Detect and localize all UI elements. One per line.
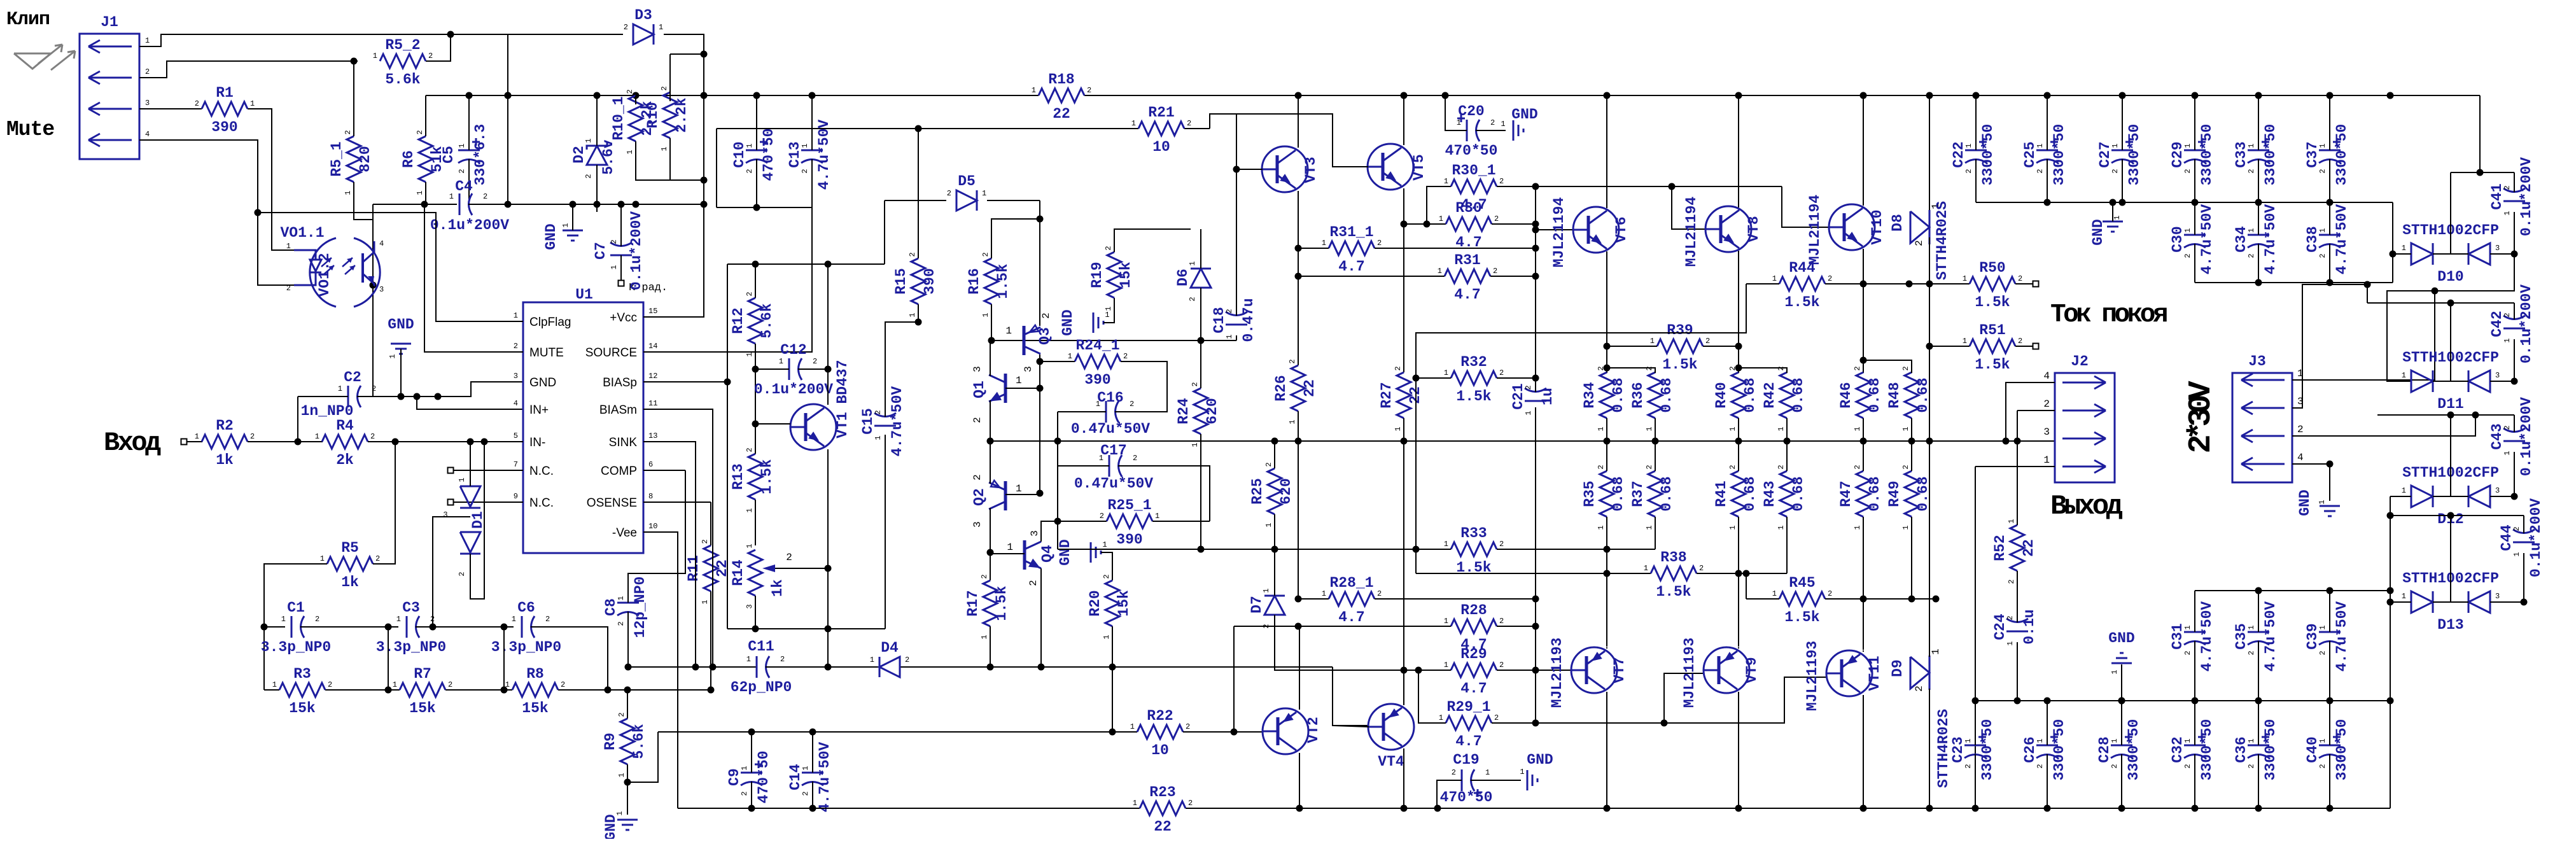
wire y863 line [1058, 549, 1451, 550]
wire J2 pin1 [1975, 466, 2055, 467]
svg-text:1: 1 [610, 265, 619, 269]
pad R51 [2033, 344, 2039, 349]
junction bus x2601 [1652, 438, 1659, 445]
svg-text:4.7u*50V: 4.7u*50V [2334, 204, 2350, 275]
wire VT9 collector [1738, 692, 1739, 808]
resistor R42 [1761, 366, 1807, 431]
diode D13 [2402, 570, 2500, 633]
svg-text:2: 2 [981, 252, 990, 256]
svg-text:J1: J1 [101, 14, 118, 31]
wire D12 D13 col [2390, 496, 2391, 808]
diode D10 [2402, 222, 2500, 285]
svg-text:R51: R51 [1979, 322, 2005, 339]
svg-text:1: 1 [801, 766, 810, 770]
capacitor C14 [787, 742, 833, 813]
capacitor C6 [491, 600, 561, 656]
resistor R1 [195, 85, 255, 136]
wire C35 top [2258, 591, 2259, 632]
wire H4 end up [1210, 114, 1236, 129]
svg-text:2: 2 [745, 447, 754, 452]
svg-text:1: 1 [2036, 738, 2045, 743]
resistor R25 [1249, 462, 1294, 527]
wire top to D3 [508, 34, 623, 35]
svg-text:2: 2 [701, 539, 710, 544]
junction J3 pin2 [2472, 412, 2479, 419]
wire D1 bottom loop [470, 442, 484, 599]
wire R10_1 top [635, 95, 636, 104]
resistor R31_1 [1322, 224, 1382, 275]
wire VT8 collector [1738, 95, 1739, 207]
svg-text:-Vee: -Vee [612, 526, 637, 540]
wire R25 bottom [1274, 514, 1275, 549]
wire R33 p1 lead [1416, 549, 1451, 550]
svg-text:1: 1 [1155, 512, 1159, 521]
svg-text:2: 2 [1377, 239, 1382, 248]
wire J3 pin1 [2292, 291, 2435, 380]
wire gnd R20 [1101, 552, 1112, 580]
capacitor C8 [603, 577, 648, 638]
wire VT1 emitter [827, 449, 829, 667]
wire C4 row right [472, 204, 704, 205]
svg-text:4: 4 [145, 130, 150, 139]
wire Q4 emitter [1040, 568, 1042, 667]
pad input [181, 439, 187, 445]
ground near J3 [2297, 489, 2340, 516]
svg-text:1: 1 [982, 189, 986, 198]
svg-text:GND: GND [1511, 106, 1537, 123]
svg-text:2: 2 [660, 86, 669, 90]
junction C4 row x667 [421, 201, 428, 208]
svg-text:470*50: 470*50 [755, 751, 772, 804]
svg-text:1: 1 [1650, 337, 1655, 346]
wire C17 left [1058, 465, 1109, 467]
junction R31_1 p2 [1532, 245, 1539, 252]
svg-text:0.1u*200V: 0.1u*200V [430, 217, 509, 234]
svg-text:C5: C5 [440, 146, 457, 164]
svg-text:1: 1 [981, 312, 990, 317]
wire R24_1 p1 lead [1040, 361, 1075, 362]
wire D9 down [1929, 689, 1930, 808]
junction gnd C4 [570, 201, 577, 208]
wire VT10 emitter [1863, 249, 1864, 373]
wire pin8 OSENSE [643, 502, 711, 503]
junction bus D8 [1926, 438, 1933, 445]
svg-text:R5_1: R5_1 [328, 141, 345, 176]
svg-text:2: 2 [1914, 685, 1925, 692]
junction SINK riser [692, 664, 699, 671]
svg-text:R9: R9 [602, 733, 619, 750]
wire C row [264, 626, 285, 628]
svg-text:2: 2 [1494, 713, 1499, 722]
svg-text:R21: R21 [1148, 104, 1174, 121]
wire R49 bottom [1911, 517, 1912, 599]
wire C22 top [1975, 95, 1977, 150]
svg-text:C4: C4 [455, 178, 473, 195]
junction R30 p1 [1424, 221, 1431, 228]
capacitor C30 [2169, 204, 2215, 275]
junction rail bottom x2206 [1401, 805, 1408, 812]
svg-text:1: 1 [1131, 119, 1136, 128]
wire VT8 emitter [1738, 251, 1739, 373]
wire R45 riser [1746, 573, 1747, 599]
wire C41 top [2514, 172, 2515, 192]
junction rail bottom x3104 [1972, 805, 1979, 812]
wire VT7 emitter [1606, 647, 1607, 649]
svg-text:4.7u*50V: 4.7u*50V [2199, 204, 2215, 275]
wire C2 right [368, 396, 438, 397]
svg-text:2: 2 [2006, 615, 2015, 620]
wire D12 p1 [2390, 496, 2411, 497]
transistor VT11 [1804, 641, 1883, 711]
diode D6 [1175, 261, 1211, 301]
svg-text:10: 10 [648, 522, 657, 531]
wire VT6 emitter [1606, 251, 1607, 373]
svg-text:1: 1 [315, 432, 319, 441]
junction y901 x2525 [1604, 570, 1611, 577]
svg-text:1: 1 [1964, 738, 1973, 743]
wire R45 p1 lead [1746, 598, 1779, 600]
svg-text:1: 1 [1853, 525, 1862, 530]
capacitor C12 [754, 342, 833, 398]
svg-text:BIASp: BIASp [603, 376, 637, 389]
resistor R35 [1581, 465, 1627, 530]
svg-text:2: 2 [2503, 185, 2512, 190]
wire D3 cathode [647, 34, 704, 317]
junction Q3 emitter node [1037, 216, 1044, 223]
label Klip [6, 9, 50, 31]
wire R33 p2 [1497, 549, 1655, 550]
capacitor C44 [2498, 498, 2544, 577]
svg-text:1: 1 [458, 143, 466, 148]
svg-text:1.5k: 1.5k [1784, 609, 1819, 626]
pins Q1 [972, 366, 1022, 423]
wire VT10 collector [1863, 95, 1864, 206]
svg-text:1: 1 [745, 544, 754, 548]
svg-text:2: 2 [1828, 274, 1832, 283]
svg-text:1: 1 [1133, 799, 1137, 808]
junction rail bottom x3661 [2327, 805, 2334, 812]
wire D10 p3 [2490, 253, 2514, 255]
junction R44 x3000 [1906, 281, 1913, 288]
svg-text:0.68: 0.68 [1658, 377, 1675, 412]
junction x3032 y544 [1926, 343, 1933, 350]
resistor R9 [602, 712, 647, 777]
svg-text:1.5k: 1.5k [1456, 388, 1491, 405]
capacitor C31 [2169, 601, 2215, 672]
wire bank top x3004 to bus [1911, 418, 1912, 441]
wire VT4 collector [1403, 670, 1404, 705]
junction bus x2732 [1735, 438, 1742, 445]
svg-text:IN+: IN+ [529, 403, 549, 417]
wire R30 p1 lead [1427, 223, 1446, 225]
svg-text:R43: R43 [1761, 481, 1778, 507]
svg-text:3300*50: 3300*50 [2125, 719, 2142, 781]
wire bus left [990, 440, 2055, 442]
wire J2 pin1 riser [1975, 467, 1976, 808]
wire R31 p2 [1490, 276, 1536, 277]
svg-text:2: 2 [1597, 465, 1606, 469]
capacitor C41 [2489, 157, 2535, 236]
svg-text:C12: C12 [780, 342, 806, 358]
resistor R8 [505, 666, 565, 717]
wire input [187, 441, 202, 442]
wire C32 bottom [2194, 765, 2195, 808]
svg-text:2: 2 [624, 23, 628, 32]
wire bank top x2601 to bus [1655, 418, 1656, 441]
svg-text:1k: 1k [341, 574, 359, 591]
svg-text:3: 3 [2043, 426, 2050, 438]
junction y444 x3661 [2327, 279, 2334, 286]
wire R51 p1 wire [1929, 346, 1970, 347]
resistor R29 [1444, 646, 1504, 697]
wire C30 top [2194, 202, 2195, 235]
svg-text:1: 1 [2007, 519, 2016, 523]
svg-text:15: 15 [648, 307, 657, 316]
svg-text:1: 1 [2183, 625, 2192, 629]
svg-text:D2: D2 [571, 146, 587, 164]
wire R5_2 p2 riser [426, 34, 451, 61]
svg-text:R50: R50 [1979, 260, 2005, 276]
svg-text:1: 1 [1288, 419, 1297, 424]
svg-text:1: 1 [1105, 311, 1109, 319]
svg-text:R5_2: R5_2 [385, 37, 420, 53]
junction rail bottom x3032 [1926, 805, 1933, 812]
svg-text:1: 1 [2110, 738, 2119, 743]
svg-text:7: 7 [514, 460, 518, 469]
junction rail x999 [633, 92, 640, 99]
svg-text:1: 1 [660, 146, 669, 151]
svg-text:1: 1 [1930, 649, 1942, 655]
svg-text:3: 3 [972, 521, 983, 528]
capacitor C36 [2233, 719, 2279, 781]
svg-text:620: 620 [1204, 398, 1221, 424]
wire C33 bottom [2258, 170, 2259, 202]
wire C43 bottom [2514, 452, 2515, 496]
wire R25_1 p1 lead [1152, 521, 1210, 522]
ground below R9 [603, 811, 638, 840]
wire J3p3 to y476 [2367, 284, 2368, 303]
wire x3760 riser [2392, 202, 2393, 283]
svg-text:0.47u*50V: 0.47u*50V [1071, 421, 1150, 437]
svg-text:2: 2 [972, 417, 983, 423]
resistor R14 [730, 544, 762, 608]
wire R9 bottom [627, 764, 628, 815]
transistor VT6 [1551, 197, 1630, 268]
svg-text:GND: GND [2108, 630, 2134, 647]
wire +Vcc rail [426, 95, 1039, 96]
junction R9 top [624, 687, 631, 694]
svg-text:2: 2 [458, 169, 466, 173]
junction midbus x3170 [2014, 698, 2021, 705]
wire C12 right [809, 368, 828, 370]
junction C4 row x798 [505, 201, 512, 208]
svg-text:1: 1 [2247, 625, 2256, 629]
svg-text:2: 2 [1452, 768, 1456, 777]
capacitor C11 [731, 638, 792, 696]
junction R30 p2 [1532, 221, 1539, 228]
svg-text:R28: R28 [1460, 602, 1487, 619]
svg-text:1: 1 [2402, 486, 2406, 495]
resistor R6 [400, 130, 445, 195]
junction C4 row x938 [594, 201, 601, 208]
svg-text:COMP: COMP [601, 465, 637, 478]
svg-text:R25_1: R25_1 [1107, 497, 1151, 514]
wire R29 p2 [1497, 670, 1536, 671]
junction midbus x3217 [2044, 698, 2051, 705]
wire Q1 base lead [1005, 388, 1040, 389]
wire D2 top [596, 95, 598, 146]
svg-text:2: 2 [2318, 169, 2327, 173]
svg-text:1: 1 [2318, 228, 2327, 232]
junction Q2 base [1037, 490, 1044, 497]
junction bus x2928 [1860, 438, 1867, 445]
wire R28 p1 [1234, 626, 1451, 627]
svg-text:2: 2 [947, 189, 951, 198]
svg-text:1: 1 [281, 615, 286, 624]
svg-text:4: 4 [2297, 452, 2304, 463]
junction gnd bank [2110, 199, 2117, 206]
svg-text:2: 2 [584, 174, 593, 178]
svg-text:1: 1 [740, 766, 749, 770]
wire C25 bottom [2047, 170, 2048, 202]
junction bus J2p4 [2003, 438, 2010, 445]
junction R48 top [1860, 357, 1867, 364]
svg-text:1: 1 [1264, 523, 1273, 527]
resistor R48 [1886, 366, 1931, 431]
capacitor C21 [1510, 381, 1556, 416]
svg-text:2: 2 [1191, 382, 1200, 386]
capacitor C40 [2304, 719, 2350, 781]
svg-text:2: 2 [145, 67, 150, 76]
resistor R20 [1087, 574, 1132, 639]
wire R30 p2 [1492, 223, 1536, 225]
junction R3 R7 [385, 687, 392, 694]
resistor R43 [1761, 465, 1807, 530]
svg-text:2: 2 [1828, 589, 1832, 598]
wire J1 pin4 to opto [139, 140, 294, 285]
capacitor C9 [726, 751, 772, 804]
wire R6 bottom [425, 182, 426, 204]
svg-text:2: 2 [2036, 764, 2045, 768]
junction R27 bus [1401, 438, 1408, 445]
resistor R30 [1439, 200, 1499, 251]
wire pin10 -Vee [643, 532, 678, 808]
junction VT1 base [752, 421, 759, 428]
junction Q4 e [1038, 664, 1045, 671]
wire R12 top [755, 264, 756, 298]
junction J3 pin1 [2432, 288, 2439, 295]
junction rail x1276 [809, 92, 816, 99]
svg-text:3.3p_NP0: 3.3p_NP0 [376, 639, 446, 656]
svg-text:1.5k: 1.5k [1656, 584, 1691, 600]
svg-text:C16: C16 [1097, 389, 1123, 406]
pins J2 [2043, 370, 2050, 466]
wire C row 2 [309, 626, 398, 628]
svg-text:1: 1 [1597, 426, 1606, 431]
svg-text:D3: D3 [634, 7, 652, 24]
svg-text:1: 1 [416, 190, 424, 195]
wire y1048 c [900, 666, 1333, 668]
wire C2 left riser [297, 396, 298, 442]
svg-text:1: 1 [1394, 426, 1403, 431]
wire bottom rail right [1186, 808, 2390, 809]
svg-text:1: 1 [1444, 617, 1448, 626]
junction C7 top [618, 201, 625, 208]
svg-text:2: 2 [2018, 274, 2022, 283]
junction x3756 y1101 [2387, 698, 2394, 705]
svg-text:Выход: Выход [2050, 491, 2123, 523]
wire VT5 collector [1403, 95, 1404, 145]
svg-text:C2: C2 [344, 369, 361, 386]
svg-text:62p_NP0: 62p_NP0 [731, 679, 792, 696]
wire x2413 col [1535, 186, 1536, 386]
svg-text:R10: R10 [645, 102, 661, 128]
svg-text:STTH4R02S: STTH4R02S [1934, 201, 1950, 280]
svg-text:1: 1 [195, 432, 199, 441]
svg-text:R19: R19 [1089, 262, 1105, 288]
svg-text:3: 3 [1023, 366, 1034, 372]
svg-text:4.7u*50V: 4.7u*50V [816, 120, 832, 190]
junction BIASm riser [710, 664, 717, 671]
svg-text:1: 1 [1225, 334, 1234, 339]
svg-text:0.68: 0.68 [1866, 476, 1883, 511]
junction midbus x3334 [2118, 698, 2125, 705]
wire D7 top [1274, 549, 1275, 596]
svg-text:R16: R16 [966, 268, 983, 294]
svg-text:R26: R26 [1273, 375, 1289, 401]
connector J3 [2232, 353, 2292, 482]
wire C16 left [1058, 411, 1106, 412]
wire R13 R14 [755, 500, 756, 545]
resistor R10 [645, 86, 690, 151]
svg-text:D4: D4 [881, 640, 899, 656]
wire J1 pin3 to R1 [139, 108, 202, 109]
svg-text:2.2k: 2.2k [673, 97, 690, 132]
wire D10 to D11 [2387, 254, 2514, 381]
svg-text:GND: GND [1527, 752, 1553, 768]
wire y1048 b [766, 666, 879, 668]
junction midbus x3549 [2255, 698, 2262, 705]
svg-text:R28_1: R28_1 [1329, 575, 1373, 591]
svg-text:0.1u*200V: 0.1u*200V [754, 381, 833, 398]
wire Q1 emitter down [990, 400, 991, 441]
capacitor C10 [731, 129, 777, 181]
wire D10 p1 [2393, 253, 2411, 255]
svg-text:2: 2 [1188, 799, 1193, 808]
wire R28_1 p2 [1375, 598, 1536, 600]
svg-text:1: 1 [701, 600, 710, 604]
svg-text:Q1: Q1 [971, 381, 988, 398]
wire Q2 collector down [990, 508, 991, 580]
wire J3 pin2 [2292, 415, 2475, 436]
capacitor C16 [1071, 389, 1150, 437]
wire R28_1 p1 [1298, 598, 1329, 600]
svg-text:2: 2 [2043, 398, 2050, 410]
wire y293 line [1497, 186, 1782, 187]
svg-text:1.5k: 1.5k [1975, 294, 2010, 311]
svg-text:2: 2 [2183, 650, 2192, 655]
wire R row 2 [325, 689, 400, 691]
resistor R40 [1713, 366, 1758, 431]
pin 2 J1 [145, 67, 150, 76]
wire C22 bottom [1975, 170, 1977, 202]
svg-text:1: 1 [801, 143, 809, 148]
svg-text:470*50: 470*50 [1440, 789, 1493, 806]
wire C26 top [2047, 701, 2048, 745]
svg-text:2: 2 [1901, 366, 1910, 370]
svg-text:1: 1 [2318, 500, 2327, 504]
svg-text:SINK: SINK [609, 436, 638, 449]
